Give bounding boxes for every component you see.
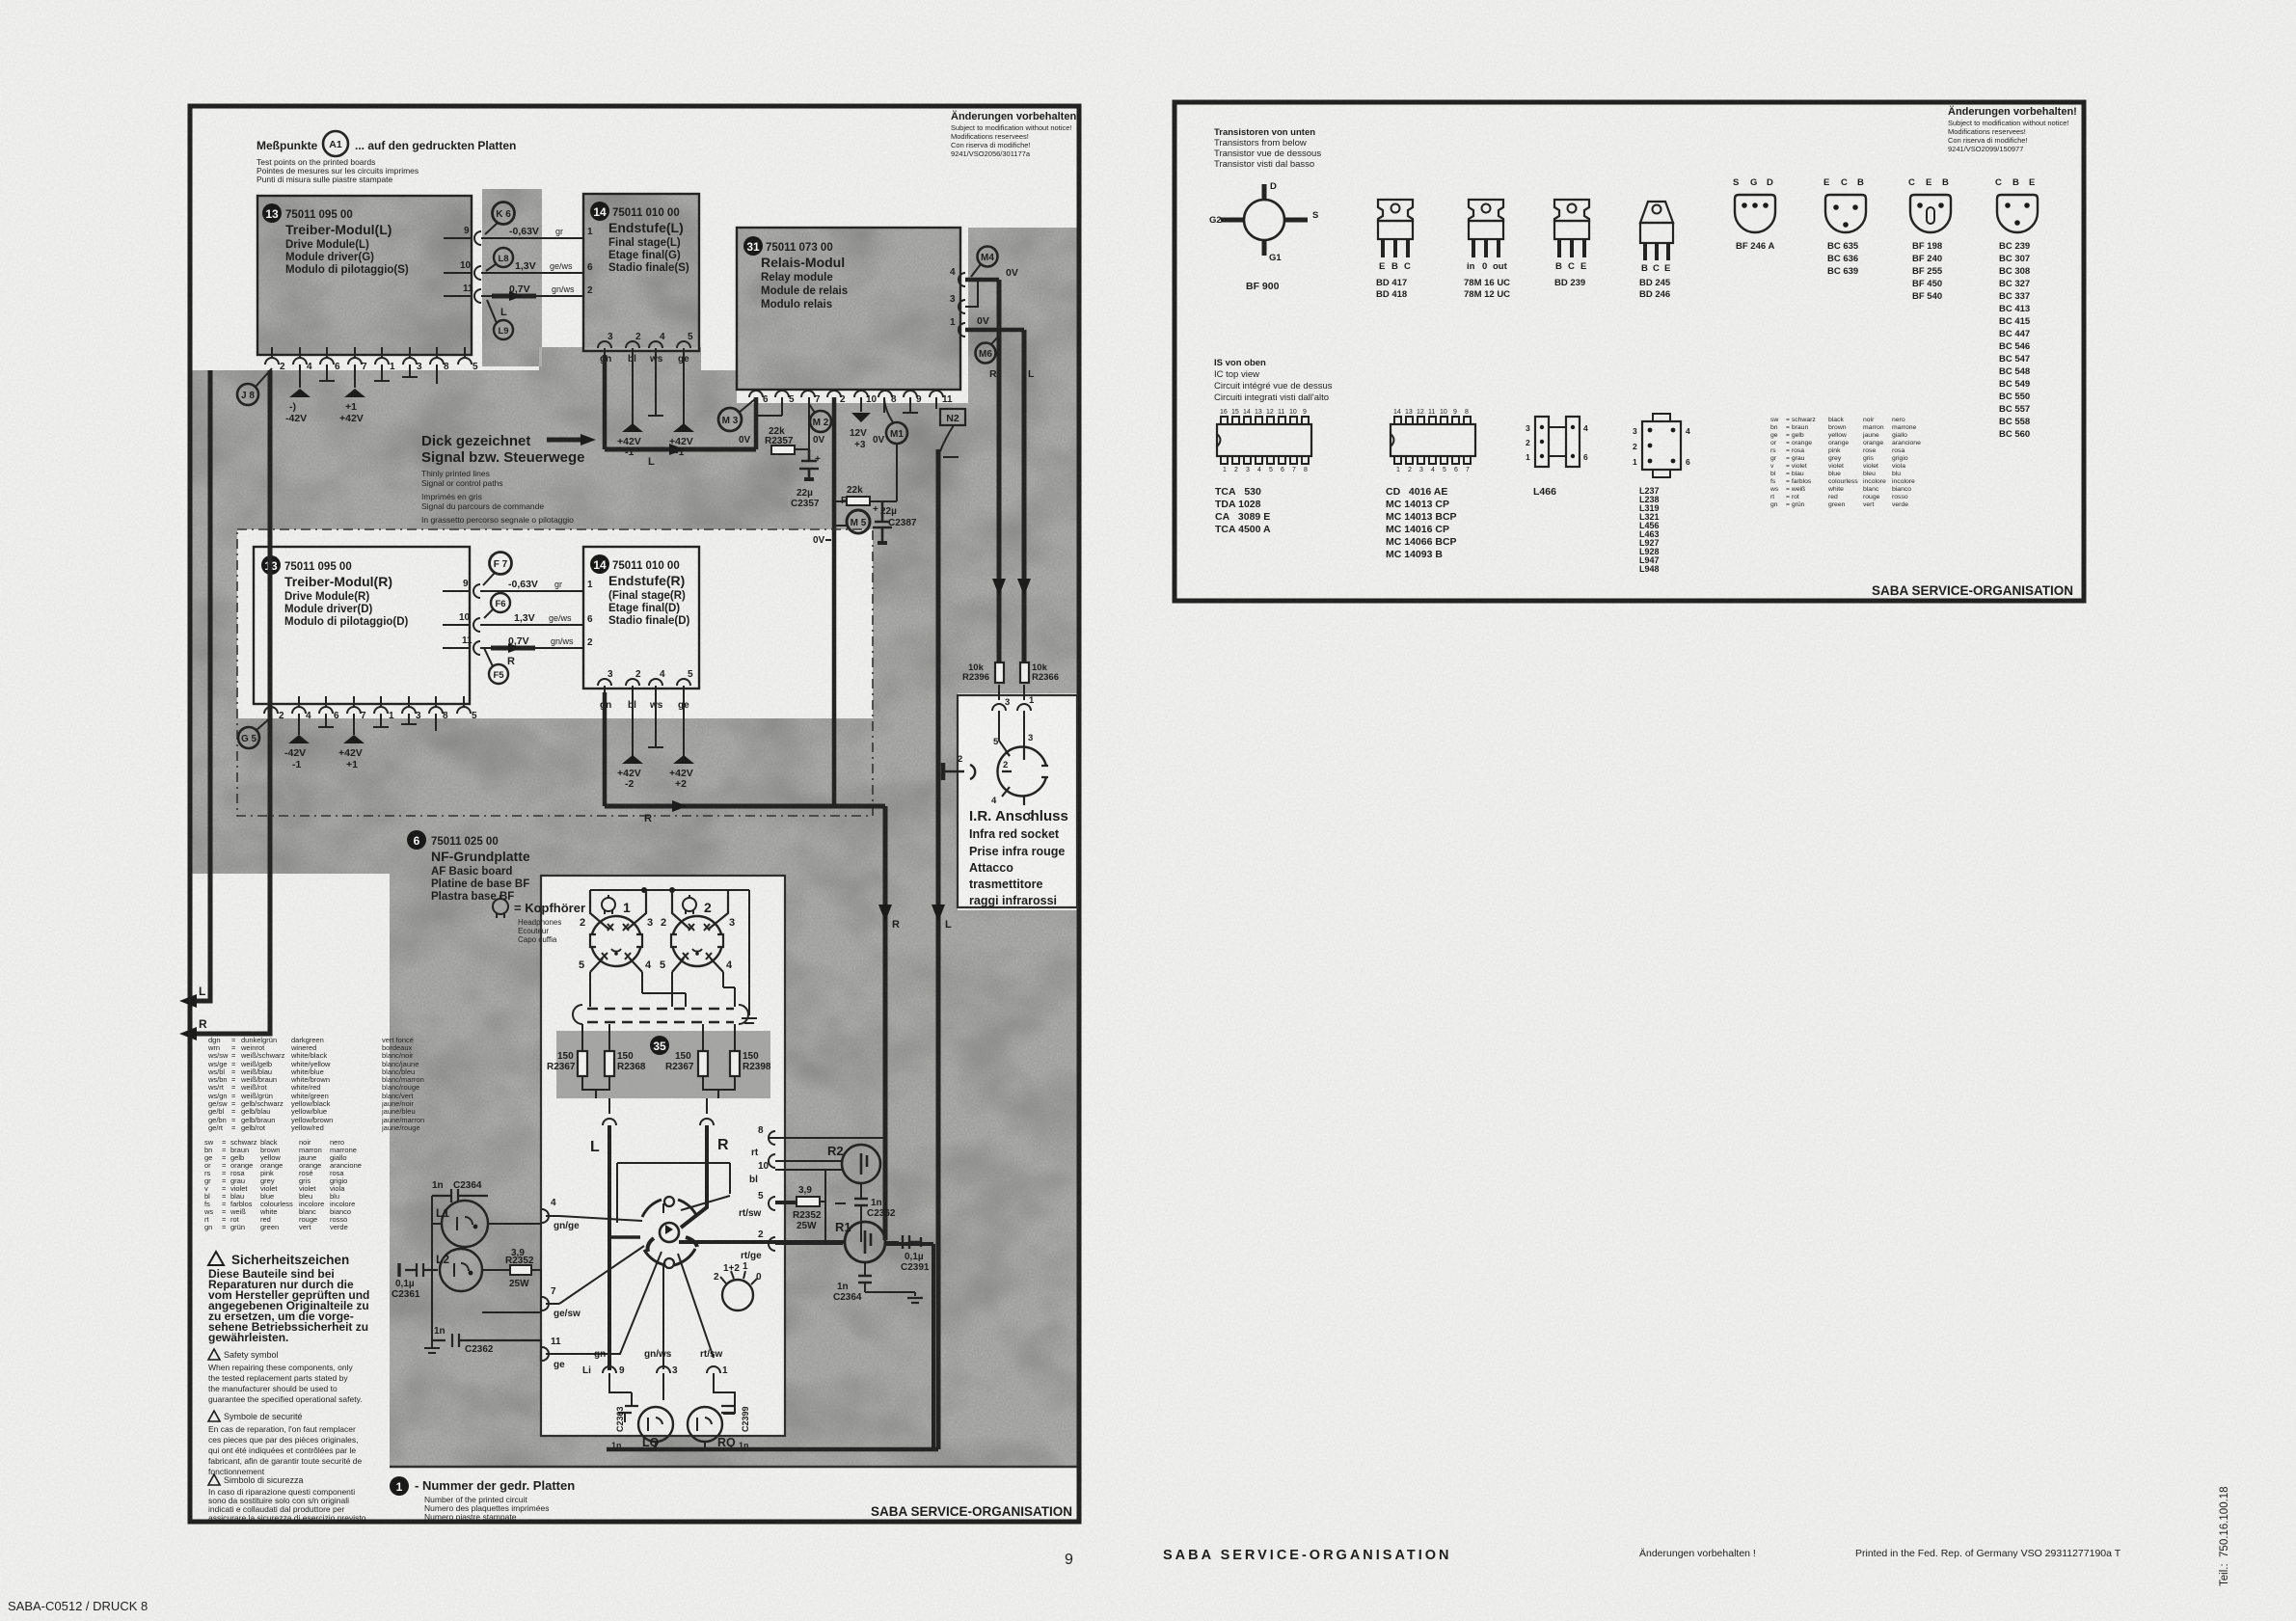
capacitor C2391 [903, 1235, 921, 1249]
shaded interior of Relais-Modul box [737, 228, 960, 390]
test point K6 [493, 203, 515, 225]
R1 jack [845, 1222, 885, 1262]
headphone 2 glyph [683, 898, 696, 911]
DIP-16 IC TCA530 [1215, 409, 1311, 535]
wire 13R pin11 to 14R (thick, R channel) [443, 647, 583, 649]
long left thick wire pair with output arrows [185, 370, 270, 1034]
capacitor C2362 bottom [432, 1334, 541, 1360]
DIP-14 IC CD4016 [1386, 409, 1475, 560]
wire pin7 down through C2357 node [808, 397, 810, 449]
test point M2 [810, 411, 831, 432]
test point F5 [489, 664, 508, 684]
10k resistor R2396 [995, 662, 1004, 683]
test point L9 [494, 320, 513, 339]
title Meßpunkte [257, 139, 516, 184]
relay N2 [940, 409, 965, 425]
wire thick pin2 down joining R line [832, 397, 837, 806]
NF basic board outline [541, 876, 785, 1436]
test point L8 [494, 248, 513, 267]
capacitor C2361 [405, 1263, 438, 1277]
shaded interior of Endstufe(L) box [583, 194, 699, 351]
transistor BD 239 (TO-220) [1554, 200, 1589, 288]
grounds under speakers [648, 1442, 713, 1449]
module 14 Endstufe(R) [583, 547, 699, 689]
pins 6 5 7 2 10 8 9 11 bottom of relais module [749, 391, 943, 397]
safety symbol paragraph (Italian) [208, 1474, 368, 1523]
resistor R2352 (right) [797, 1197, 820, 1206]
pins 2 4 6 7 1 3 8 5 of module 13L [265, 347, 472, 365]
left page outer frame [190, 106, 1079, 1522]
module 14 Endstufe(L) [583, 194, 699, 351]
wire pin9 to Endstufe(L) pin1 [444, 237, 583, 239]
circuit number legend at bottom [390, 1476, 575, 1522]
optocoupler L466 [1526, 417, 1588, 498]
circuit number 6 and AF board label [407, 830, 530, 903]
capacitor C2387 (polarized) [873, 501, 892, 545]
wire pin10 to 12V rail [860, 397, 862, 412]
wire M5 to pin2 rail [825, 526, 847, 540]
capacitor C2357 (polarized) [799, 449, 819, 481]
note Änderungen vorbehalten (left sheet) [951, 110, 1080, 158]
rail -42V pin4 of 13R [288, 735, 310, 743]
wire relais aux pins to rails [965, 280, 1024, 330]
module 31 Relais-Modul [737, 228, 960, 390]
wires below 14R pins [633, 686, 684, 756]
wires sockets to connector strip [590, 972, 735, 1007]
note Dick gezeichnet / signal paths [421, 433, 584, 525]
thick wire R channel to relais [605, 804, 885, 809]
shaded strip with K6/L8/L9 test points [482, 189, 542, 366]
L1 socket [442, 1201, 488, 1247]
safety symbol paragraph (French) [208, 1411, 363, 1476]
rotary switch hub [664, 1197, 674, 1206]
speckle noise over gray [190, 189, 1079, 1467]
transistor can BF246A [1733, 177, 1775, 252]
wires below resistors and L R outputs of board 35 [582, 1076, 735, 1098]
module 13 Treiber-Modul(R) [254, 547, 470, 704]
wires below 14L pins [633, 348, 684, 424]
resistor R2368 [605, 1051, 614, 1076]
board pins bottom (9,3,1) [582, 1349, 728, 1376]
resistor R2367 (2nd) [698, 1051, 708, 1076]
transistor BF 900 [1209, 181, 1318, 292]
wire pin11 (thick signal, L channel) [444, 295, 583, 297]
resistor block 35 wires down [582, 1024, 735, 1051]
resistor R2352 3,9 25W [482, 1270, 541, 1312]
wire thick from pin6 down to L line [754, 397, 759, 449]
optocoupler L237 group [1633, 414, 1690, 574]
capacitor C2399 [721, 1406, 735, 1413]
thick arrow of Dick gezeichnet legend [547, 438, 586, 443]
voltage labels near relais [739, 426, 917, 546]
capacitor C2364 top [432, 1189, 488, 1202]
pins 1 6 2 left edge of 14L [587, 227, 593, 296]
transistor package BD417/BD418 (TO-220) [1376, 200, 1413, 300]
resistor R2357 [771, 446, 795, 454]
wire relais pin6/pin5 step [756, 397, 782, 416]
transistor can BC239 group [1995, 177, 2038, 440]
test point J8 [237, 384, 258, 405]
pins 3 and 1 into IR box [999, 685, 1024, 700]
wire from pin 8 area to R1/R2 [769, 1138, 885, 1244]
module 13 Treiber-Modul(L) [257, 196, 472, 355]
switch wires to board pins [546, 1196, 730, 1358]
headphone socket 1 [591, 916, 641, 966]
test point M6 [976, 343, 996, 364]
headphone socket 2 [672, 916, 722, 966]
wire 13R pin10 to 14R [443, 624, 583, 626]
regulator package 78M16UC [1464, 200, 1510, 300]
capacitor C2362 (right) [854, 1199, 868, 1205]
L2 socket [440, 1249, 482, 1291]
pins 9 10 11 right edge of 13R [473, 584, 480, 598]
wire labels L R to switch top [0, 0, 1, 1]
10k resistor R2366 [1020, 662, 1029, 683]
colour code legend (two-colour wires) [203, 1036, 424, 1231]
headphone bus wire [590, 890, 749, 1015]
test point M4 [978, 247, 998, 267]
test point F7 [490, 553, 512, 575]
large central gray mass [190, 347, 1079, 1467]
RQ speaker [688, 1407, 722, 1442]
resistor R2398 [730, 1051, 740, 1076]
wires pins to speakers [609, 1373, 735, 1414]
wire pin10 [444, 272, 583, 274]
transistor BD245/BD246 (TO-3P) [1639, 202, 1673, 300]
wires L R into switch [608, 1125, 611, 1370]
wires below module 13R pins [299, 714, 436, 735]
switch house routing [617, 1163, 730, 1223]
gray halftone background regions [190, 189, 1079, 1467]
plug symbol at IR socket [943, 765, 975, 779]
DIN socket of IR connector [998, 747, 1047, 797]
pins 3 2 4 5 bottom of 14L [598, 341, 690, 348]
test point G5 [238, 727, 259, 748]
gray box 35 on AF board [556, 1031, 770, 1098]
test point M5 [847, 510, 870, 533]
rail +42V pin7 of 13R [343, 735, 365, 743]
wire pin8 stub [883, 397, 885, 413]
I.R. Anschluss box [958, 695, 1077, 907]
pins 3 2 4 5 bottom of 14R [598, 679, 690, 686]
thick wire L channel from 14L to relais [605, 447, 756, 452]
headphone 1 glyph [602, 898, 615, 911]
safety symbol paragraph (German, bold) [208, 1252, 369, 1344]
transistor can BF198 group [1908, 177, 1951, 302]
test point F6 [491, 593, 510, 612]
right panel outer frame [1175, 102, 2084, 601]
rail -42V at pin4 [289, 389, 311, 397]
capacitor C2363 [618, 1406, 638, 1413]
wire pin9 to ground [909, 397, 911, 412]
transistors from below heading [1214, 127, 1321, 170]
pins 2 4 6 7 1 3 8 5 of module 13R [264, 696, 471, 714]
colour legend on right sheet [1769, 417, 1921, 508]
test point M1 [886, 422, 907, 444]
resistor R2367 (1st) [578, 1051, 587, 1076]
thick wires R and L down right side [885, 449, 938, 1449]
wires below module 13L pins [300, 365, 437, 388]
connector strip (dashed) [587, 1009, 734, 1022]
colour code legend (single colours) [203, 1138, 362, 1231]
shaded interior of Treiber-Modul(L) box [257, 196, 472, 355]
bottom heavy return wire [885, 1244, 933, 1449]
ground at C2362 [424, 1340, 440, 1353]
I.R. Anschluss texts [969, 808, 1068, 907]
IC top view heading [1214, 358, 1333, 403]
wire loop left of L1/L2 [432, 1196, 541, 1340]
blotchy halftone over gray [190, 189, 1079, 1467]
test point A1 [323, 131, 348, 156]
selector position indicator [722, 1280, 753, 1310]
rail +42V at pin7 [344, 389, 365, 397]
resistor R2387 [847, 497, 870, 505]
strip pins 4 3 1 right of relais [959, 273, 965, 286]
test point M3 [718, 408, 742, 431]
board pins left side (4,7,11) [542, 1209, 549, 1223]
capacitor C2364 (right) [858, 1276, 872, 1283]
R2 jack [842, 1145, 880, 1183]
wire 13R pin9 to 14R [443, 590, 583, 592]
safety symbol paragraph (English) [208, 1349, 363, 1404]
Kopfhörer icon [493, 899, 508, 914]
LQ speaker [638, 1407, 673, 1442]
right sheet header note [1948, 105, 2077, 153]
right thick vertical wires from relais to IR socket [999, 280, 1024, 662]
dash-dot group box around right-channel modules [237, 529, 873, 816]
transistor can BC635 group [1823, 177, 1866, 277]
shaded strip with M4/M6 test points [968, 228, 1077, 444]
circuit number 35 [650, 1036, 669, 1055]
pins 9 10 11 right edge of 13L [474, 231, 481, 245]
